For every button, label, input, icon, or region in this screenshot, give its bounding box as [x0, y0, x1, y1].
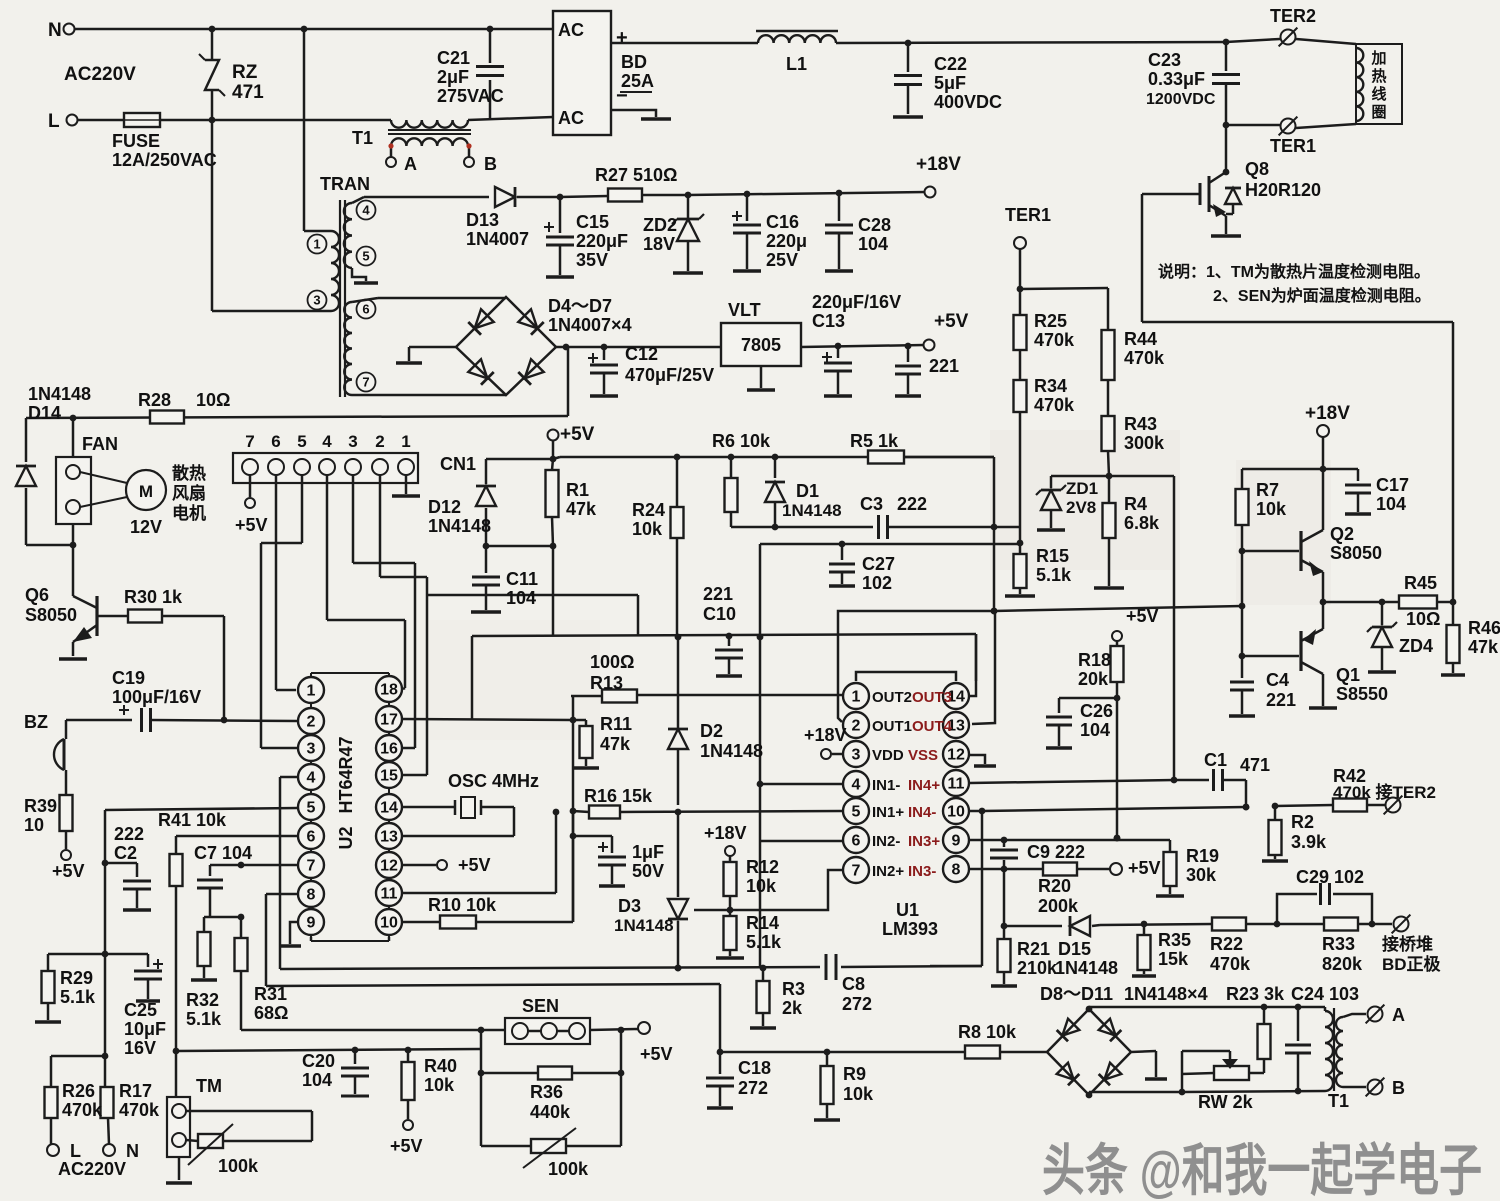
svg-text:5.1k: 5.1k: [746, 932, 782, 952]
resistor R5: [868, 451, 904, 464]
label AC220V: [64, 64, 136, 85]
capacitor C24: [1285, 1007, 1311, 1091]
svg-text:RW 2k: RW 2k: [1198, 1092, 1254, 1112]
ground R21: [991, 984, 1017, 988]
bridge D4-D7 outline: [456, 297, 556, 395]
ground C18: [707, 1106, 733, 1110]
terminal +5V sen: [638, 1022, 673, 1064]
label 1N4148x4: [1124, 984, 1208, 1004]
terminal TER2 top: [1270, 6, 1316, 46]
svg-text:热: 热: [1371, 67, 1386, 85]
diode D10: [1057, 1063, 1080, 1086]
svg-text:1: 1: [852, 689, 861, 706]
svg-text:R21: R21: [1017, 939, 1050, 959]
svg-text:D1: D1: [796, 481, 819, 501]
svg-text:B: B: [484, 154, 497, 174]
svg-text:5: 5: [297, 432, 306, 451]
terminal TER1 mid: [1005, 205, 1051, 292]
label R26 470k: [62, 1081, 103, 1120]
wire TER2 to coil: [1296, 39, 1356, 44]
wire D13 to R27: [557, 194, 608, 201]
ic U2 body: [311, 673, 389, 941]
label R12 10k: [746, 857, 779, 896]
resistor R24: [671, 454, 684, 641]
wire sec7 to bridge bottom: [352, 394, 506, 397]
label 221 C10: [703, 584, 736, 624]
svg-text:TM: TM: [196, 1076, 222, 1096]
capacitor C10: [715, 633, 743, 674]
svg-text:5.1k: 5.1k: [186, 1009, 222, 1029]
resistor R6: [725, 454, 738, 527]
svg-text:C24 103: C24 103: [1291, 984, 1359, 1004]
resistor R41: [170, 854, 183, 1097]
label SEN 100k: [548, 1159, 589, 1179]
wire L rail to bridge: [468, 117, 553, 120]
capacitor C20: [341, 1047, 369, 1094]
label R34 470k: [1034, 376, 1075, 415]
svg-text:2V8: 2V8: [1066, 498, 1096, 517]
label C16 220u 25V: [766, 212, 807, 270]
resistor R30: [128, 610, 224, 721]
svg-text:+18V: +18V: [804, 725, 847, 745]
svg-text:470μF/25V: 470μF/25V: [625, 365, 714, 385]
terminal CN1 +5V: [235, 475, 268, 535]
label TM 100k: [218, 1156, 259, 1176]
label U1 pin names left: [872, 689, 912, 880]
svg-text:L1: L1: [786, 54, 807, 74]
svg-text:470k: 470k: [1034, 395, 1075, 415]
label SEN: [522, 996, 559, 1016]
label heating coil text: [1370, 50, 1386, 121]
svg-text:N: N: [48, 20, 62, 41]
capacitor C13: [822, 343, 852, 394]
watermark toutiao: [1042, 1139, 1482, 1201]
svg-text:+5V: +5V: [560, 424, 595, 445]
label R8 10k: [958, 1022, 1017, 1042]
terminal B out: [1366, 1078, 1405, 1098]
capacitor C18: [706, 1052, 734, 1106]
ground VLT: [747, 366, 775, 390]
wire divider mid node: [1017, 527, 1024, 546]
label D1 1N4148: [782, 481, 842, 520]
wire L to fuse: [78, 119, 124, 122]
thermistor TM box: [167, 1097, 190, 1180]
resistor R13: [571, 690, 842, 721]
capacitor C4: [1230, 656, 1254, 714]
svg-text:R32: R32: [186, 990, 219, 1010]
transformer TRAN core: [340, 200, 345, 397]
resistor R34: [1014, 380, 1027, 527]
regulator VLT 7805: [721, 300, 801, 366]
svg-text:Q6: Q6: [25, 585, 49, 605]
svg-text:+5V: +5V: [934, 311, 969, 332]
resistor R16: [589, 806, 842, 819]
label 1N4148 D14: [28, 384, 91, 423]
svg-text:R46: R46: [1468, 618, 1500, 638]
wire CN1 pin2 to U2pin15: [380, 475, 427, 775]
svg-text:220μ: 220μ: [766, 231, 807, 251]
svg-text:+18V: +18V: [916, 154, 961, 175]
label CN1 numbers: [245, 432, 410, 451]
svg-text:D12: D12: [428, 497, 461, 517]
svg-text:R18: R18: [1078, 650, 1111, 670]
svg-text:C17: C17: [1376, 475, 1409, 495]
wire sec6 to bridge top: [352, 298, 506, 302]
svg-text:LM393: LM393: [882, 919, 938, 939]
svg-text:470k: 470k: [62, 1100, 103, 1120]
svg-text:C29 102: C29 102: [1296, 867, 1364, 887]
svg-text:102: 102: [862, 573, 892, 593]
svg-text:C19: C19: [112, 668, 145, 688]
label Q6 S8050: [25, 585, 77, 625]
svg-text:R13: R13: [590, 673, 623, 693]
resistor R23: [1249, 1007, 1271, 1073]
terminal +5V vlt: [924, 311, 969, 351]
label OSC 4MHz: [448, 771, 539, 791]
ic U2 pins right: [376, 676, 402, 935]
terminal +18V q2: [1305, 403, 1350, 469]
svg-text:C27: C27: [862, 554, 895, 574]
svg-text:R2: R2: [1291, 812, 1314, 832]
wire R1bot to bus: [552, 546, 555, 636]
note shuoming text: [1158, 262, 1431, 305]
svg-text:C12: C12: [625, 344, 658, 364]
svg-text:R20: R20: [1038, 876, 1071, 896]
svg-text:R27 510Ω: R27 510Ω: [595, 165, 678, 185]
label C29 102: [1296, 867, 1364, 887]
svg-text:T1: T1: [1328, 1091, 1349, 1111]
transformer TRAN label: [320, 174, 370, 194]
label C24 103: [1291, 984, 1359, 1004]
svg-text:R19: R19: [1186, 846, 1219, 866]
svg-text:风扇: 风扇: [172, 483, 206, 503]
svg-text:D8～D11: D8～D11: [1040, 984, 1113, 1004]
terminal TER2 right: [1384, 796, 1403, 815]
label C15 220uF 35V: [576, 212, 628, 270]
terminal +18V top: [916, 154, 961, 198]
resistor R3: [757, 968, 770, 1026]
label R39 10: [24, 796, 57, 835]
wire coil to TER1: [1296, 124, 1356, 128]
svg-text:5: 5: [852, 804, 861, 821]
svg-text:TER2: TER2: [1270, 6, 1316, 26]
label R35 15k: [1158, 930, 1191, 969]
wire D15 line: [1004, 925, 1062, 928]
wire R35 line: [1100, 921, 1212, 928]
svg-text:471: 471: [232, 82, 264, 103]
svg-text:说明：1、TM为散热片温度检测电阻。: 说明：1、TM为散热片温度检测电阻。: [1158, 262, 1430, 281]
svg-text:104: 104: [302, 1070, 332, 1090]
svg-text:R24: R24: [632, 500, 665, 520]
ground C11: [471, 610, 501, 614]
svg-text:5.1k: 5.1k: [1036, 565, 1072, 585]
svg-text:12V: 12V: [130, 517, 162, 537]
label U2 HT64R47: [336, 736, 356, 849]
svg-text:C13: C13: [812, 311, 845, 331]
svg-text:R39: R39: [24, 796, 57, 816]
wire bridge right gnd: [1131, 1051, 1156, 1077]
svg-text:7805: 7805: [741, 335, 781, 355]
svg-text:2: 2: [307, 714, 316, 731]
svg-text:9: 9: [307, 915, 316, 932]
svg-text:1: 1: [307, 683, 316, 700]
svg-text:2、SEN为炉面温度检测电阻。: 2、SEN为炉面温度检测电阻。: [1213, 286, 1431, 305]
label D13 1N4007: [466, 210, 529, 249]
wire U1 pin14 out3: [970, 634, 976, 696]
wire +5V d12 rail: [486, 441, 556, 462]
ic U1 pins right: [943, 683, 969, 882]
thermistor TM 100k: [188, 1124, 233, 1165]
label RW 2k: [1198, 1092, 1254, 1112]
svg-text:S8050: S8050: [1330, 543, 1382, 563]
ground C5: [599, 884, 625, 888]
svg-text:SEN: SEN: [522, 996, 559, 1016]
ground ZD2: [673, 271, 703, 275]
svg-text:C9 222: C9 222: [1027, 842, 1085, 862]
svg-text:R41 10k: R41 10k: [158, 810, 227, 830]
svg-text:R3: R3: [782, 979, 805, 999]
ground Q6 emitter: [59, 657, 87, 661]
svg-text:AC: AC: [558, 20, 584, 40]
svg-text:OUT3: OUT3: [912, 689, 952, 706]
wire U1 pin7: [694, 870, 842, 913]
ground C2: [123, 908, 151, 912]
diode D3: [668, 812, 688, 971]
label 1uF 50V: [632, 842, 664, 881]
svg-text:电机: 电机: [172, 503, 206, 523]
label BD 25A plus: [616, 27, 654, 107]
ground CN1 pin1: [392, 475, 420, 496]
svg-text:+5V: +5V: [640, 1044, 673, 1064]
capacitor C11: [472, 546, 500, 610]
svg-text:D13: D13: [466, 210, 499, 230]
svg-text:3.9k: 3.9k: [1291, 832, 1327, 852]
label 100 R13: [590, 652, 634, 693]
svg-text:C25: C25: [124, 1000, 157, 1020]
svg-text:10: 10: [947, 804, 965, 821]
svg-text:18V: 18V: [643, 234, 675, 254]
svg-text:C7 104: C7 104: [194, 843, 252, 863]
svg-text:2: 2: [852, 718, 861, 735]
svg-text:100k: 100k: [218, 1156, 259, 1176]
resistor R4: [1103, 476, 1116, 586]
capacitor C21: [476, 26, 504, 120]
svg-text:470k 接TER2: 470k 接TER2: [1333, 782, 1436, 802]
svg-text:0.33μF: 0.33μF: [1148, 69, 1205, 89]
svg-text:2: 2: [375, 432, 384, 451]
transistor Q8 IGBT: [1142, 125, 1241, 234]
ground R2: [1262, 859, 1288, 863]
resistor R36 loop: [478, 1030, 625, 1080]
svg-text:BD正极: BD正极: [1382, 955, 1441, 974]
terminal U1 +18V: [804, 725, 847, 759]
svg-text:R29: R29: [60, 968, 93, 988]
wire divider top: [1020, 288, 1108, 330]
svg-text:15: 15: [380, 768, 398, 785]
label R9 10k: [843, 1064, 874, 1104]
svg-text:线: 线: [1371, 85, 1386, 103]
label R17 470k: [119, 1081, 160, 1120]
ground R46: [1441, 673, 1465, 677]
svg-text:+18V: +18V: [1305, 403, 1350, 424]
resistor R9: [821, 1052, 834, 1118]
svg-text:10: 10: [380, 915, 398, 932]
svg-text:C20: C20: [302, 1051, 335, 1071]
svg-text:OUT1: OUT1: [872, 718, 912, 735]
svg-text:272: 272: [842, 994, 872, 1014]
svg-text:C11: C11: [506, 569, 538, 589]
resistor R18: [1111, 606, 1159, 841]
wire R28 rail: [26, 347, 568, 421]
transistor Q2: [1239, 469, 1323, 602]
wire R16 line: [570, 808, 589, 815]
svg-text:R45: R45: [1404, 573, 1437, 593]
svg-text:R14: R14: [746, 913, 779, 933]
svg-text:221: 221: [1266, 690, 1296, 710]
resistor R29: [42, 971, 55, 1020]
svg-text:+5V: +5V: [458, 855, 491, 875]
wire C23 node to TER2: [1223, 39, 1280, 46]
label R14 5.1k: [746, 913, 782, 952]
wire CN1 pin3 to U2pin16: [353, 475, 415, 748]
svg-text:R10 10k: R10 10k: [428, 895, 497, 915]
svg-text:1N4148: 1N4148: [428, 516, 491, 536]
svg-text:C23: C23: [1148, 50, 1181, 70]
resistor R8: [965, 1046, 1047, 1059]
svg-text:ZD1: ZD1: [1066, 479, 1098, 498]
svg-text:16V: 16V: [124, 1038, 156, 1058]
zener ZD1: [1036, 476, 1066, 528]
label R24 10k: [632, 500, 665, 539]
label R23 3k: [1226, 984, 1285, 1004]
diode D11: [1099, 1063, 1122, 1086]
svg-text:220μF/16V: 220μF/16V: [812, 292, 901, 312]
svg-text:IN1+: IN1+: [872, 804, 904, 821]
svg-text:+: +: [616, 27, 628, 49]
transformer TRAN sec top: [344, 197, 376, 268]
resistor R42: [1275, 799, 1385, 812]
label Q8 H20R120: [1245, 159, 1321, 200]
wire L rail to T1: [212, 119, 391, 122]
label R7 10k: [1256, 480, 1287, 519]
svg-text:BD: BD: [621, 52, 647, 72]
capacitor C16: [732, 191, 761, 269]
wire +300V rail: [611, 42, 758, 45]
capacitor C29: [1277, 883, 1375, 927]
svg-text:R33: R33: [1322, 934, 1355, 954]
label R22 470k: [1210, 934, 1251, 974]
svg-text:470k: 470k: [119, 1100, 160, 1120]
label T1 out: [1328, 1091, 1349, 1111]
label fan chinese: [172, 463, 206, 523]
resistor R45: [1399, 596, 1456, 609]
diode D14: [16, 418, 76, 548]
svg-text:C22: C22: [934, 54, 967, 74]
label C19 100uF/16V: [112, 668, 201, 707]
svg-text:R26: R26: [62, 1081, 95, 1101]
label R43 300k: [1124, 414, 1165, 453]
svg-text:210k: 210k: [1017, 958, 1058, 978]
svg-text:30k: 30k: [1186, 865, 1217, 885]
svg-text:VLT: VLT: [728, 300, 761, 320]
svg-text:OUT2: OUT2: [872, 689, 912, 706]
connector CN1 box: [233, 453, 418, 483]
wire U1 pin8 line: [970, 868, 1004, 871]
capacitor C5 1uF50V: [570, 833, 626, 884]
terminal L bottom: [47, 1141, 81, 1161]
svg-text:100μF/16V: 100μF/16V: [112, 687, 201, 707]
capacitor C26: [1046, 698, 1117, 746]
svg-text:100k: 100k: [548, 1159, 589, 1179]
svg-text:R8 10k: R8 10k: [958, 1022, 1017, 1042]
svg-text:11: 11: [948, 776, 965, 793]
capacitor C19: [66, 705, 297, 732]
svg-text:14: 14: [380, 800, 398, 817]
ground R15: [1005, 594, 1035, 598]
wire C3 line: [731, 526, 873, 529]
svg-text:R35: R35: [1158, 930, 1191, 950]
svg-text:IN2+: IN2+: [872, 863, 904, 880]
capacitor C15: [544, 197, 574, 275]
wire R21 node: [1001, 869, 1008, 929]
wire TM loop: [186, 1111, 312, 1141]
diode D7: [518, 359, 543, 384]
capacitor C25: [105, 954, 163, 999]
label R1 47k: [566, 480, 597, 519]
svg-text:1μF: 1μF: [632, 842, 664, 862]
resistor R26: [45, 1087, 58, 1144]
svg-text:接桥堆: 接桥堆: [1382, 934, 1433, 954]
svg-text:470k: 470k: [1210, 954, 1251, 974]
ground U1 pin12: [970, 755, 996, 766]
ground C27: [829, 584, 855, 588]
wire U1 pin4: [757, 781, 842, 788]
svg-text:U1: U1: [896, 900, 919, 920]
svg-text:17: 17: [380, 712, 398, 729]
resistor R15: [1014, 543, 1027, 594]
svg-text:4: 4: [307, 770, 316, 787]
label BZ: [24, 712, 48, 732]
wire BD minus to ground: [611, 110, 656, 117]
capacitor C22: [894, 40, 922, 114]
wire emitter out: [1323, 599, 1399, 606]
capacitor C8: [826, 954, 982, 980]
wire CN1 pin5 jog: [261, 475, 302, 748]
terminal +5V bz: [52, 850, 85, 881]
diode D13: [495, 187, 560, 207]
svg-text:8: 8: [952, 862, 961, 879]
svg-text:R36: R36: [530, 1082, 563, 1102]
svg-text:+18V: +18V: [704, 823, 747, 843]
svg-text:3: 3: [852, 747, 861, 764]
wire bridge right rail: [556, 344, 721, 351]
svg-text:471: 471: [1240, 755, 1270, 775]
svg-text:D14: D14: [28, 403, 61, 423]
diode D15: [1070, 916, 1100, 936]
svg-text:头条 @和我一起学电子: 头条 @和我一起学电子: [1042, 1139, 1482, 1201]
wire U2pin5 left rail: [105, 808, 297, 1090]
label R20 200k: [1038, 876, 1079, 916]
svg-text:IN3-: IN3-: [908, 863, 936, 880]
inductor heating coil: [1356, 48, 1363, 121]
svg-text:AC: AC: [558, 108, 584, 128]
svg-text:D15: D15: [1058, 939, 1091, 959]
svg-text:R23 3k: R23 3k: [1226, 984, 1285, 1004]
resistor R40: [402, 1047, 415, 1119]
wire +5V rail right: [553, 457, 560, 459]
label R5 1k: [850, 431, 899, 451]
svg-text:R44: R44: [1124, 329, 1157, 349]
